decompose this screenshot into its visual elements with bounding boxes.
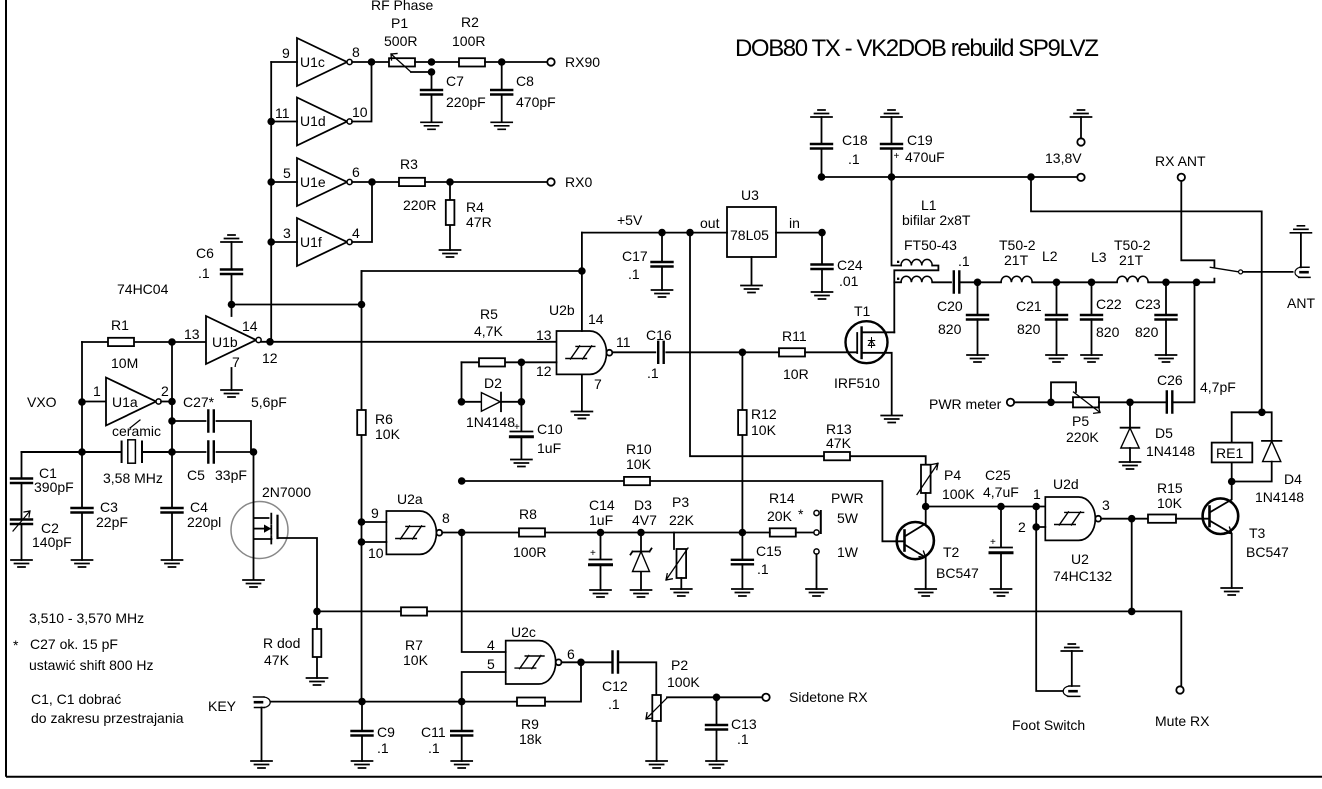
wire pin10 out riser [352,62,372,122]
svg-text:820: 820 [1017,321,1041,337]
svg-text:6: 6 [352,164,360,180]
svg-text:5,6pF: 5,6pF [251,394,287,410]
svg-text:+: + [590,548,596,559]
svg-text:U2c: U2c [511,624,536,640]
diode D3 zener 4V7 [637,529,645,537]
svg-text:.1: .1 [848,151,860,167]
svg-text:Sidetone RX: Sidetone RX [789,689,868,705]
wire U2a inputs [362,522,387,542]
capacitor C23 [1162,279,1170,287]
svg-text:R10: R10 [626,441,652,457]
svg-text:RX ANT: RX ANT [1155,153,1206,169]
capacitor C11 [461,702,463,761]
svg-text:*: * [13,637,19,653]
svg-text:1N4148: 1N4148 [1146,443,1195,459]
nand U2a [386,511,442,554]
transistor T3 BC547 [1203,498,1239,534]
svg-text:C8: C8 [516,73,534,89]
capacitor C17 [661,233,663,290]
svg-text:U1c: U1c [300,54,325,70]
svg-text:+: + [894,151,900,162]
capacitor C13 [716,697,718,761]
wire pin8 out [352,61,389,63]
svg-text:100R: 100R [452,33,485,49]
svg-text:2: 2 [161,383,169,399]
svg-text:P3: P3 [672,494,689,510]
svg-text:47K: 47K [826,435,852,451]
svg-text:+5V: +5V [617,212,643,228]
svg-text:18k: 18k [519,731,543,747]
svg-text:10R: 10R [783,366,809,382]
wire R10 line [462,481,904,541]
svg-text:21T: 21T [1119,252,1144,268]
node RX90 [547,58,554,65]
svg-text:U2: U2 [1071,551,1089,567]
node dot [267,178,275,186]
resistor R15 [1148,515,1176,523]
svg-text:BC547: BC547 [1246,544,1289,560]
svg-text:13: 13 [536,327,552,343]
capacitor C18 [811,110,832,117]
svg-text:10K: 10K [751,422,777,438]
capacitor C25 [997,503,1005,511]
svg-text:U3: U3 [741,187,759,203]
svg-text:11: 11 [275,105,290,121]
wire pin3 [271,241,297,243]
svg-text:R8: R8 [519,506,537,522]
svg-text:R6: R6 [375,411,393,427]
svg-text:L3: L3 [1091,249,1107,265]
svg-text:IRF510: IRF510 [834,375,880,391]
svg-text:T3: T3 [1249,525,1266,541]
svg-text:74HC132: 74HC132 [1053,568,1112,584]
svg-text:8: 8 [442,510,450,526]
wire pin14 riser [231,305,233,317]
wire TR key line [317,611,1181,686]
wire T2 collector line to U2d [926,506,1046,508]
svg-text:C5: C5 [187,467,205,483]
regulator U3 78L05 [727,207,776,257]
svg-text:.1: .1 [958,253,970,269]
nand U2c [506,641,562,684]
svg-text:P2: P2 [671,657,688,673]
svg-text:470pF: 470pF [516,94,556,110]
svg-text:8: 8 [352,44,360,60]
resistor R7 [401,607,427,615]
svg-text:220K: 220K [1066,429,1099,445]
svg-text:14: 14 [588,311,604,327]
wire pin4 out riser [352,182,372,242]
svg-text:2: 2 [1018,519,1026,535]
nand U2d [1045,497,1101,540]
svg-text:1: 1 [1033,486,1041,502]
svg-text:KEY: KEY [208,698,237,714]
svg-text:C22: C22 [1096,296,1122,312]
svg-text:C23: C23 [1135,296,1161,312]
svg-text:R4: R4 [466,199,484,215]
inverter U1a [82,401,106,403]
svg-text:L1: L1 [921,197,937,213]
svg-text:5W: 5W [837,510,859,526]
svg-text:4: 4 [487,637,495,653]
inverter U1c [297,38,352,86]
node TX out [1193,279,1201,287]
svg-text:C16: C16 [646,327,672,343]
wire +5V rail [582,232,662,234]
svg-text:C20: C20 [937,298,963,314]
resistor R6 in +5V column [361,271,363,702]
svg-text:+: + [990,537,996,548]
capacitor C10 [520,402,522,459]
svg-text:13,8V: 13,8V [1045,150,1082,166]
svg-text:U1e: U1e [300,174,326,190]
node RX0 [547,178,554,185]
svg-text:7: 7 [594,376,602,392]
wire left bus [81,342,83,452]
svg-text:U2a: U2a [397,491,423,507]
svg-text:U1b: U1b [212,334,238,350]
wire middle column [171,342,173,508]
svg-text:P4: P4 [944,467,961,483]
svg-text:.1: .1 [377,740,389,756]
svg-text:U2d: U2d [1053,476,1079,492]
inverter U1d [297,98,352,146]
wire pin7 ground [231,368,233,390]
svg-text:10: 10 [368,545,384,561]
wire pin9 [271,61,297,63]
inverter U1f [297,218,352,266]
nand U2b [557,331,613,374]
svg-text:RF Phase: RF Phase [371,0,433,13]
svg-text:C1, C1 dobrać: C1, C1 dobrać [31,691,121,707]
svg-text:Mute RX: Mute RX [1155,713,1210,729]
svg-text:3,58 MHz: 3,58 MHz [103,470,163,486]
svg-text:P1: P1 [391,15,408,31]
svg-text:Foot Switch: Foot Switch [1012,717,1085,733]
potentiometer P5 [1051,382,1076,402]
svg-text:C3: C3 [100,499,118,515]
inverter U1b [206,316,261,364]
svg-text:C11: C11 [421,724,446,740]
svg-text:22K: 22K [669,512,695,528]
svg-text:T2: T2 [943,544,960,560]
svg-text:5: 5 [487,656,495,672]
resistor R dod [316,611,318,678]
svg-text:in: in [789,215,800,231]
svg-text:R7: R7 [405,637,423,653]
svg-text:20K: 20K [767,508,793,524]
capacitor C20 [974,279,982,287]
svg-text:RX90: RX90 [565,54,600,70]
svg-text:4: 4 [352,225,360,241]
svg-text:820: 820 [1096,324,1120,340]
svg-text:R9: R9 [521,716,539,732]
svg-text:R15: R15 [1157,480,1183,496]
svg-text:C13: C13 [731,716,757,732]
svg-text:C26: C26 [1157,372,1183,388]
svg-text:C14: C14 [589,497,615,513]
svg-text:3: 3 [283,225,291,241]
svg-text:140pF: 140pF [32,534,72,550]
svg-text:10M: 10M [111,355,138,371]
node dot [267,238,275,246]
svg-text:100K: 100K [667,674,700,690]
capacitor C22 [1088,279,1096,287]
svg-text:C6: C6 [196,245,214,261]
node dot [267,118,275,126]
svg-text:21T: 21T [1004,252,1029,268]
capacitor C14 [597,529,605,537]
svg-text:C27*: C27* [183,394,215,410]
svg-text:R dod: R dod [263,635,300,651]
node Mute RX [1176,686,1183,693]
svg-text:3: 3 [1102,497,1110,513]
node junction [368,178,376,186]
resistor R9 [462,662,581,701]
svg-text:.1: .1 [757,561,769,577]
wire relay feed [1031,177,1262,412]
capacitor C24 [821,233,823,292]
wire pin5 riser [462,672,506,702]
svg-text:12: 12 [262,350,278,366]
svg-text:D3: D3 [634,497,652,513]
wire KEY line [271,701,462,703]
svg-text:R1: R1 [111,317,129,333]
svg-text:47K: 47K [264,652,290,668]
resistor R4 [449,182,451,250]
switch relay contact [1210,267,1238,271]
svg-text:RX0: RX0 [565,174,592,190]
svg-text:ustawić shift 800 Hz: ustawić shift 800 Hz [29,657,154,673]
svg-text:390pF: 390pF [34,479,74,495]
svg-text:R11: R11 [782,328,807,344]
svg-text:220pl: 220pl [187,514,221,530]
svg-text:+: + [514,422,520,433]
capacitor C9 [361,702,363,761]
svg-text:C10: C10 [537,421,563,437]
diode D4 1N4148 [1232,412,1272,440]
wire +5V branch [362,271,582,305]
svg-text:C9: C9 [377,724,395,740]
svg-text:C21: C21 [1016,298,1042,314]
svg-text:12: 12 [536,363,552,379]
svg-text:D4: D4 [1284,471,1302,487]
transistor T2 BC547 [897,522,934,559]
svg-text:2N7000: 2N7000 [262,484,311,500]
wire C6 to +5V column [232,304,362,306]
svg-text:47R: 47R [466,214,492,230]
capacitor C12 [613,652,619,673]
svg-text:L2: L2 [1042,248,1058,264]
node Sidetone RX [762,694,769,701]
svg-text:R5: R5 [480,306,498,322]
svg-text:do zakresu przestrajania: do zakresu przestrajania [31,710,184,726]
svg-text:1N4148: 1N4148 [466,414,515,430]
resistor R13 [690,233,926,465]
capacitor C6 [221,235,242,242]
svg-text:RE1: RE1 [1216,445,1243,461]
node 13,8V connector [1077,174,1084,181]
wire U2a out [442,532,519,534]
svg-text:6: 6 [567,646,575,662]
svg-text:R12: R12 [751,406,777,422]
svg-text:470uF: 470uF [905,149,945,165]
svg-text:1uF: 1uF [589,512,613,528]
svg-text:BC547: BC547 [936,565,979,581]
relay RE1 [1212,443,1253,463]
wire pin5 [271,181,297,183]
svg-text:C17: C17 [622,248,648,264]
svg-text:.1: .1 [198,265,210,281]
svg-text:4,7K: 4,7K [474,323,503,339]
svg-text:DOB80 TX - VK2DOB rebuild SP9L: DOB80 TX - VK2DOB rebuild SP9LVZ [735,35,1098,62]
svg-text:13: 13 [184,326,200,342]
svg-text:.1: .1 [428,740,440,756]
svg-text:FT50-43: FT50-43 [904,237,957,253]
svg-text:*: * [798,506,804,522]
svg-text:11: 11 [616,334,631,350]
resistor R10 [624,477,650,485]
wire pin4 riser [462,533,506,653]
wire 13,8V rail [822,176,1078,178]
svg-text:.1: .1 [608,696,620,712]
capacitor .1 coupling [932,281,951,283]
svg-text:C7: C7 [446,73,464,89]
svg-text:T50-2: T50-2 [999,237,1036,253]
svg-text:P5: P5 [1072,413,1089,429]
svg-text:4V7: 4V7 [632,512,657,528]
resistor R12 [741,352,743,532]
svg-text:.1: .1 [737,731,749,747]
svg-text:74HC04: 74HC04 [117,281,169,297]
svg-text:10: 10 [352,104,368,120]
svg-text:9: 9 [282,45,290,61]
svg-text:out: out [700,215,720,231]
svg-text:10K: 10K [403,652,429,668]
svg-text:U1d: U1d [300,113,326,129]
capacitor C8 [501,62,503,122]
svg-text:R3: R3 [400,156,418,172]
wire U2d pin2 + footswitch riser [1036,507,1062,692]
svg-text:14: 14 [242,318,258,334]
svg-text:10K: 10K [1157,495,1183,511]
svg-text:500R: 500R [384,33,417,49]
svg-text:U1f: U1f [300,234,322,250]
svg-text:VXO: VXO [27,394,57,410]
svg-text:C18: C18 [842,132,868,148]
svg-text:1N4148: 1N4148 [1255,489,1304,505]
svg-text:C15: C15 [756,543,782,559]
resistor R8 [519,528,545,536]
svg-text:R14: R14 [769,490,795,506]
svg-text:bifilar 2x8T: bifilar 2x8T [902,212,971,228]
svg-text:33pF: 33pF [215,467,247,483]
capacitor C21 [1053,279,1061,287]
svg-text:5: 5 [283,165,291,181]
svg-text:100K: 100K [942,486,975,502]
svg-text:22pF: 22pF [96,514,128,530]
svg-text:9: 9 [371,505,379,521]
svg-text:220R: 220R [403,197,436,213]
svg-text:D2: D2 [484,375,502,391]
inverter U1e [297,158,352,206]
capacitor C7 [431,72,433,122]
svg-text:PWR meter: PWR meter [929,396,1002,412]
svg-text:1uF: 1uF [537,440,561,456]
svg-text:ANT: ANT [1287,295,1315,311]
svg-text:C25: C25 [985,467,1011,483]
svg-text:820: 820 [938,321,962,337]
wire U2c out [562,661,613,663]
svg-text:7: 7 [232,354,240,370]
svg-text:C4: C4 [190,499,208,515]
svg-text:3,510 - 3,570 MHz: 3,510 - 3,570 MHz [29,610,144,626]
diode D5 1N4148 [1129,402,1131,427]
svg-text:10K: 10K [626,456,652,472]
capacitor C16 [613,351,742,353]
wire pin6 out [352,181,399,183]
wire pin14 riser [581,233,583,331]
resistor R14 [739,529,747,537]
svg-text:C12: C12 [602,678,628,694]
wire U2d out [1101,518,1148,520]
node junction U1c out [368,58,376,66]
resistor R11 [779,348,805,356]
wire pin11 [271,121,297,123]
svg-text:100R: 100R [513,544,546,560]
svg-text:220pF: 220pF [446,94,486,110]
svg-text:4,7pF: 4,7pF [1200,379,1236,395]
svg-text:U2b: U2b [549,302,575,318]
svg-text:R2: R2 [461,14,479,30]
svg-text:.01: .01 [839,273,859,289]
svg-text:T1: T1 [854,303,871,319]
svg-text:C27 ok. 15 pF: C27 ok. 15 pF [30,636,118,652]
svg-text:.1: .1 [647,365,659,381]
svg-text:.1: .1 [628,266,640,282]
svg-text:820: 820 [1135,324,1159,340]
svg-text:C24: C24 [837,257,863,273]
svg-text:C19: C19 [907,132,933,148]
svg-text:T50-2: T50-2 [1114,237,1151,253]
wire U1b out to U2b pin13 [261,341,557,343]
svg-text:1: 1 [93,383,101,399]
wire pin7 ground [581,374,583,411]
svg-text:D5: D5 [1155,425,1173,441]
ground [221,390,242,397]
svg-text:1W: 1W [837,544,859,560]
svg-text:78L05: 78L05 [730,227,769,243]
capacitor C15 [741,533,743,590]
capacitor C19 [881,110,902,117]
svg-text:PWR: PWR [831,490,864,506]
svg-text:4,7uF: 4,7uF [983,484,1019,500]
svg-text:ceramic: ceramic [112,423,161,439]
svg-text:10K: 10K [375,426,401,442]
svg-text:U1a: U1a [112,394,138,410]
wire input bus [270,62,272,342]
